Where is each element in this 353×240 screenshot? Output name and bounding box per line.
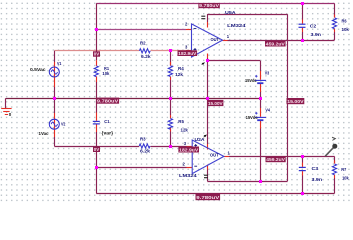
svg-text:15.00V: 15.00V	[208, 101, 223, 107]
svg-text:C2: C2	[310, 23, 317, 28]
svg-text:12k: 12k	[175, 72, 183, 77]
svg-text:3.9n: 3.9n	[312, 177, 323, 182]
svg-text:V1: V1	[57, 61, 62, 66]
svg-text:V2: V2	[61, 121, 66, 126]
svg-text:LM324: LM324	[227, 23, 246, 28]
svg-text:15Vdc: 15Vdc	[246, 115, 259, 120]
svg-text:OUT: OUT	[211, 37, 220, 42]
svg-text:459.2uV: 459.2uV	[266, 157, 285, 163]
svg-text:6.2k: 6.2k	[140, 149, 151, 154]
svg-text:3: 3	[185, 45, 188, 50]
svg-text:R3: R3	[140, 137, 146, 142]
svg-text:1: 1	[228, 151, 231, 156]
svg-text:15.00V: 15.00V	[287, 99, 304, 105]
svg-text:V3: V3	[265, 70, 270, 75]
svg-text:459.2uV: 459.2uV	[266, 41, 286, 47]
svg-text:0V: 0V	[94, 52, 100, 58]
svg-text:C1: C1	[104, 119, 110, 124]
svg-text:U2A: U2A	[195, 137, 206, 142]
svg-text:0.5Vac: 0.5Vac	[30, 67, 46, 72]
svg-text:3: 3	[184, 141, 187, 146]
svg-text:0: 0	[9, 112, 12, 117]
svg-text:2: 2	[185, 21, 188, 26]
svg-text:10k: 10k	[342, 176, 349, 181]
svg-text:9.780uV: 9.780uV	[196, 195, 220, 201]
svg-text:6.2k: 6.2k	[141, 54, 151, 59]
svg-text:R7: R7	[341, 167, 346, 172]
svg-text:15Vdc: 15Vdc	[245, 78, 257, 83]
svg-text:R4: R4	[178, 66, 184, 71]
svg-text:OUT: OUT	[210, 152, 219, 157]
svg-text:12k: 12k	[181, 128, 189, 133]
svg-text:LM324: LM324	[179, 173, 197, 178]
svg-text:182.9uV: 182.9uV	[179, 147, 199, 153]
svg-text:R6: R6	[342, 18, 347, 23]
svg-text:182.9uV: 182.9uV	[178, 51, 197, 57]
svg-text:C3: C3	[312, 166, 319, 171]
svg-text:1: 1	[227, 34, 230, 39]
svg-text:1Vac: 1Vac	[39, 131, 50, 136]
svg-text:V4: V4	[265, 108, 270, 113]
svg-text:3.9n: 3.9n	[311, 32, 322, 37]
svg-text:0V: 0V	[94, 147, 100, 153]
svg-text:{var}: {var}	[102, 131, 114, 136]
svg-text:10k: 10k	[342, 27, 350, 32]
svg-text:9.780uV: 9.780uV	[97, 99, 119, 105]
svg-text:U5A: U5A	[225, 10, 237, 15]
svg-text:10k: 10k	[102, 71, 110, 76]
svg-text:9.780uV: 9.780uV	[199, 3, 220, 9]
svg-text:R2: R2	[140, 41, 146, 46]
svg-text:2: 2	[183, 161, 186, 166]
svg-text:R5: R5	[178, 119, 184, 124]
